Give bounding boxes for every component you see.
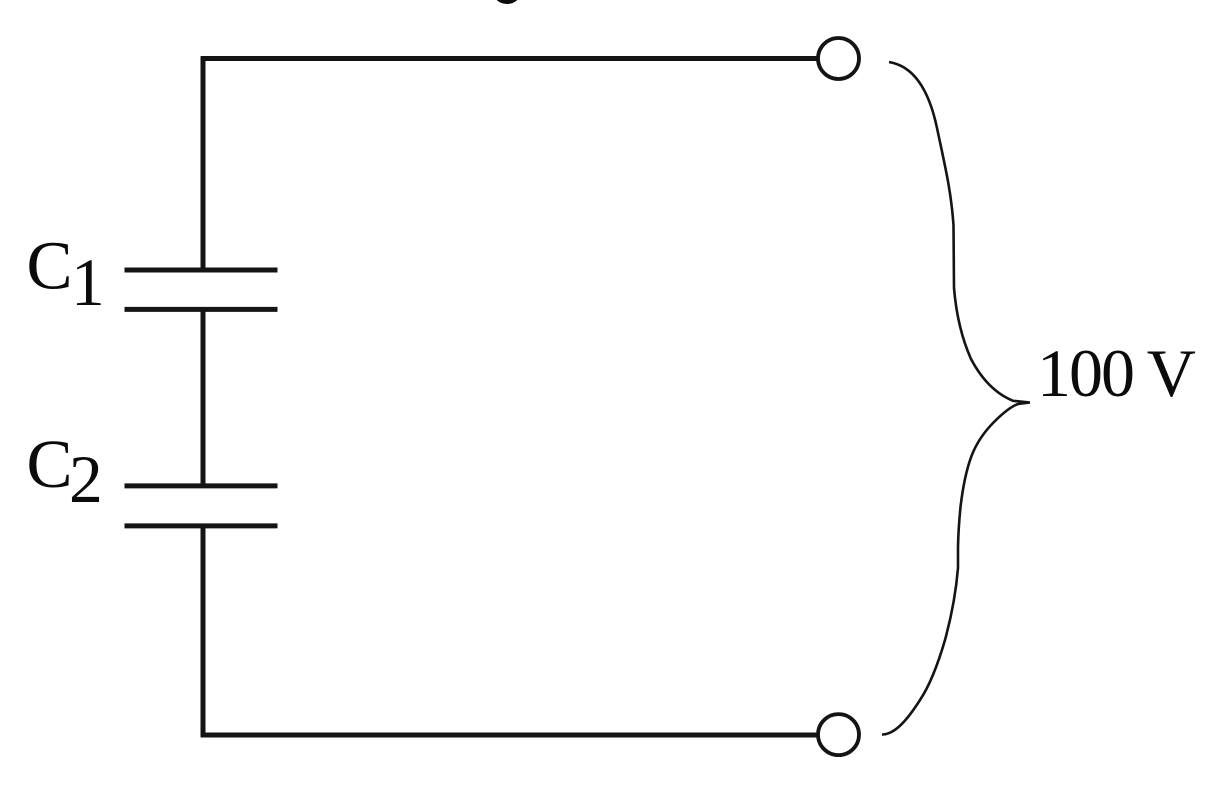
wire: left vertical middle segment (C1 bottom plate to C2 top plate) (201, 309, 206, 486)
svg-text:C: C (27, 426, 73, 502)
node: bottom terminal circle (818, 714, 859, 755)
capacitor C1 (125, 270, 278, 309)
wire: left vertical lower segment (C2 bottom plate to bottom corner) (201, 526, 206, 737)
capacitor C1 top plate (125, 268, 278, 273)
cropped title text remnant (top edge blob) (495, 0, 520, 4)
svg-text:2: 2 (69, 442, 103, 517)
capacitor C1 bottom plate (125, 307, 278, 312)
wire: bottom horizontal from left branch to bottom terminal (201, 733, 818, 738)
svg-text:100 V: 100 V (1037, 335, 1196, 411)
svg-text:C: C (27, 228, 73, 304)
capacitor C2 (125, 486, 278, 526)
wire: top horizontal from left branch to top terminal (201, 56, 818, 61)
capacitor C2 top plate (125, 483, 278, 488)
brace (right curly bracket for source voltage) (882, 62, 1030, 735)
node: top terminal circle (818, 38, 859, 79)
wire: left vertical upper segment (top corner down to C1 top plate) (201, 56, 206, 270)
capacitor C2 bottom plate (125, 523, 278, 528)
svg-text:1: 1 (71, 245, 105, 320)
